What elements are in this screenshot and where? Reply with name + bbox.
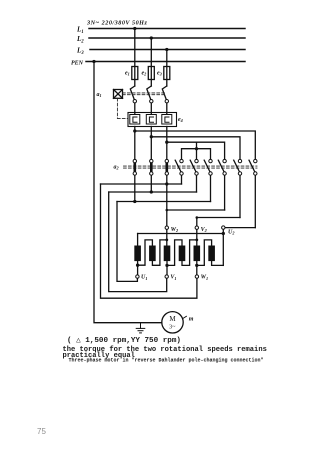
svg-text:V2: V2 bbox=[201, 227, 207, 233]
svg-text:M: M bbox=[169, 315, 176, 323]
svg-text:e4: e4 bbox=[178, 117, 183, 123]
svg-text:a1: a1 bbox=[97, 92, 102, 98]
svg-text:e2: e2 bbox=[142, 71, 147, 77]
svg-text:e1: e1 bbox=[125, 71, 130, 77]
svg-text:W2: W2 bbox=[171, 227, 178, 233]
svg-text:m: m bbox=[189, 317, 194, 323]
svg-text:a2: a2 bbox=[114, 165, 119, 171]
svg-text:U1: U1 bbox=[141, 275, 147, 281]
svg-text:3N~ 220/380V 50Hz: 3N~ 220/380V 50Hz bbox=[86, 20, 147, 27]
svg-text:75: 75 bbox=[37, 427, 46, 436]
svg-text:e3: e3 bbox=[157, 71, 162, 77]
svg-text:V1: V1 bbox=[170, 275, 176, 281]
svg-text:PEN: PEN bbox=[71, 60, 84, 66]
svg-text:Three-phase motor in "reverse: Three-phase motor in "reverse Dahlander … bbox=[69, 358, 264, 364]
svg-text:3~: 3~ bbox=[169, 325, 176, 331]
svg-text:W1: W1 bbox=[201, 275, 208, 281]
svg-text:U2: U2 bbox=[228, 230, 234, 236]
svg-text:( △ 1,500 rpm,YY 750 rpm): ( △ 1,500 rpm,YY 750 rpm) bbox=[67, 337, 181, 345]
